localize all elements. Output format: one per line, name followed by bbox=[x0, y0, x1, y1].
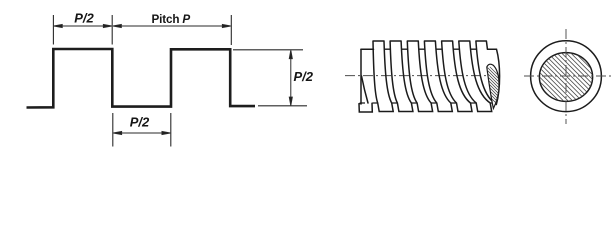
dimension line P/2 side bbox=[289, 50, 292, 105]
thread crest 4 bbox=[424, 41, 452, 112]
end view horizontal centerline bbox=[524, 75, 611, 77]
screw left end face bbox=[359, 49, 374, 112]
root lines bottom bbox=[361, 102, 496, 104]
left end thread start feet bbox=[359, 76, 372, 112]
left end top shoulder bbox=[361, 48, 374, 50]
thread profile square wave bbox=[27, 49, 256, 108]
dimension line Pitch P bbox=[113, 25, 231, 28]
thread crest 7 bbox=[476, 41, 495, 103]
end view vertical centerline bbox=[565, 29, 567, 124]
svg-text:Pitch P: Pitch P bbox=[152, 13, 191, 26]
extension line mid P/2 top bbox=[111, 15, 113, 45]
screw centerline bbox=[345, 75, 500, 77]
extension line right Pitch P bbox=[230, 15, 232, 45]
end view outer circle bbox=[531, 41, 602, 112]
thread end lobe bbox=[487, 64, 499, 108]
thread crest 1 bbox=[373, 41, 393, 112]
thread crest 6 bbox=[459, 41, 492, 112]
screw right end cap bbox=[488, 49, 500, 104]
thread crest 3 bbox=[407, 41, 432, 112]
root lines top bbox=[385, 48, 477, 50]
end view hatching bbox=[528, 0, 605, 170]
end view inner circle bbox=[539, 53, 592, 102]
svg-text:P/2: P/2 bbox=[130, 114, 150, 129]
thread crest 5 bbox=[442, 41, 472, 112]
svg-text:P/2: P/2 bbox=[74, 10, 94, 25]
svg-text:P/2: P/2 bbox=[294, 69, 314, 84]
extension line right P/2 bottom bbox=[170, 113, 172, 147]
extension line left P/2 bottom bbox=[112, 113, 114, 147]
dimension line P/2 bottom bbox=[113, 132, 170, 135]
lobe hatching bbox=[481, 58, 503, 110]
thread crest 2 bbox=[390, 41, 413, 112]
dimension line P/2 top bbox=[54, 25, 112, 28]
extension line left P/2 top bbox=[52, 15, 54, 45]
extension line top right P/2 side bbox=[233, 49, 303, 51]
extension line bottom right P/2 side bbox=[258, 105, 307, 107]
